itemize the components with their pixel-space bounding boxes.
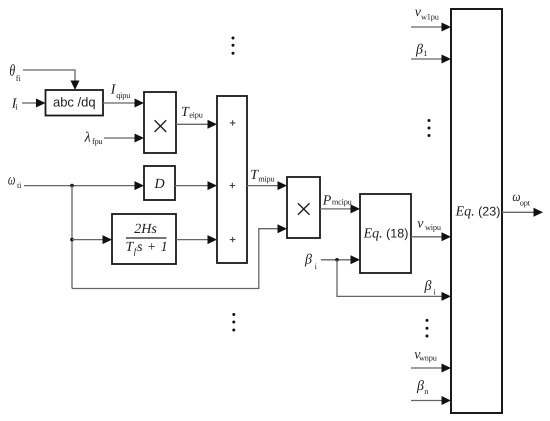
wire Eq18 to Eq23 xyxy=(411,236,443,238)
wire multiplier2 to Eq18 xyxy=(320,208,352,210)
arrow into Eq23 v_wipu xyxy=(442,232,452,241)
svg-text:D: D xyxy=(153,177,164,192)
svg-text:Tfs + 1: Tfs + 1 xyxy=(126,240,169,256)
ellipsis above summer xyxy=(232,37,235,55)
svg-text:Eq. (18): Eq. (18) xyxy=(363,227,409,242)
block Eq23 xyxy=(451,9,502,413)
block summer xyxy=(217,96,247,263)
arrow into multiplier2 input2 xyxy=(278,224,288,233)
arrow into summer input2 xyxy=(208,181,218,190)
arrow into abc/dq top xyxy=(71,81,80,91)
svg-text:λ: λ xyxy=(84,130,91,145)
svg-text:opt: opt xyxy=(520,198,531,207)
svg-text:fpu: fpu xyxy=(92,137,103,146)
ellipsis below summer xyxy=(232,313,235,332)
wire I_i to abc/dq xyxy=(22,102,37,104)
plus sign 2 xyxy=(230,183,236,188)
wire omega drop down xyxy=(71,186,73,289)
wire v_wnpu to Eq23 xyxy=(411,367,443,369)
wire theta_fi to abc/dq top xyxy=(23,70,75,81)
wire lambda_fpu to multiplier1 xyxy=(104,137,136,139)
arrow into Eq23 v_w1pu xyxy=(442,23,452,32)
svg-text:wipu: wipu xyxy=(425,223,441,232)
svg-text:wnpu: wnpu xyxy=(419,354,437,363)
wire omega to TF block xyxy=(72,239,104,241)
arrow into multiplier1 input2 xyxy=(135,134,145,143)
svg-text:w1pu: w1pu xyxy=(421,13,439,22)
block abc/dq xyxy=(46,90,104,116)
wire summer to multiplier2 xyxy=(247,185,279,187)
svg-text:β: β xyxy=(304,253,312,268)
svg-text:β: β xyxy=(415,43,423,58)
arrow into summer input1 xyxy=(208,120,218,129)
arrow into summer input3 xyxy=(208,235,218,244)
arrow into Eq18 input1 xyxy=(351,204,361,213)
times sign multiplier2 xyxy=(298,203,310,215)
wire omega_ti to D block xyxy=(24,185,136,187)
arrow into TF block xyxy=(103,235,113,244)
arrow omega_opt output xyxy=(534,208,544,217)
svg-text:eipu: eipu xyxy=(189,110,203,119)
svg-text:Eq. (23): Eq. (23) xyxy=(455,205,501,220)
wire TF to summer xyxy=(176,239,209,241)
junction omega at TF row xyxy=(70,238,74,242)
wire beta_i branch to Eq23 xyxy=(337,260,443,297)
junction beta_i xyxy=(335,258,339,262)
ellipsis right upper xyxy=(428,119,431,137)
ellipsis right lower xyxy=(426,319,429,338)
wire D to summer xyxy=(175,185,209,187)
svg-text:2Hs: 2Hs xyxy=(134,222,157,237)
svg-text:P: P xyxy=(322,194,332,209)
block D xyxy=(144,166,175,200)
svg-text:1: 1 xyxy=(423,49,427,58)
times sign multiplier1 xyxy=(155,120,167,132)
svg-text:β: β xyxy=(424,279,432,294)
svg-text:mipu: mipu xyxy=(258,175,274,184)
junction omega at D row xyxy=(70,184,74,188)
block multiplier1 xyxy=(144,92,176,153)
arrow into multiplier1 input1 xyxy=(135,99,145,108)
arrow into D block xyxy=(135,181,145,190)
block multiplier2 xyxy=(287,177,320,238)
wire v_w1pu to Eq23 xyxy=(411,26,443,28)
arrow into Eq23 beta_n xyxy=(442,396,452,405)
arrow into Eq23 beta_i xyxy=(442,292,452,301)
arrow into Eq23 v_wnpu xyxy=(442,364,452,373)
svg-text:v: v xyxy=(417,217,424,232)
wire beta_i to Eq18 xyxy=(321,259,352,261)
wire Eq23 output omega_opt xyxy=(502,211,534,213)
wire multiplier1 to summer xyxy=(176,123,209,125)
wire beta_1 to Eq23 xyxy=(411,58,443,60)
svg-text:ω: ω xyxy=(8,172,16,189)
arrow into multiplier2 input1 xyxy=(278,181,288,190)
block Eq18 xyxy=(360,194,411,273)
svg-text:qipu: qipu xyxy=(116,91,130,100)
label theta_fi xyxy=(9,63,15,80)
fraction bar xyxy=(126,237,167,239)
arrow into abc/dq left xyxy=(36,99,46,108)
label omega_opt xyxy=(512,190,520,205)
wire abc/dq to multiplier1 xyxy=(103,102,136,104)
wire beta_n to Eq23 xyxy=(411,400,443,402)
plus sign 1 xyxy=(230,120,236,125)
svg-text:mcipu: mcipu xyxy=(332,198,352,207)
svg-text:abc /dq: abc /dq xyxy=(53,95,96,110)
plus sign 3 xyxy=(230,237,236,242)
arrow into Eq18 input2 xyxy=(351,255,361,264)
svg-text:β: β xyxy=(416,379,424,394)
label omega_ti xyxy=(8,172,16,189)
block transfer function 2Hs/(Tfs+1) xyxy=(112,214,176,264)
wire omega feedback to multiplier2 xyxy=(72,229,279,289)
svg-text:θ: θ xyxy=(9,63,15,80)
arrow into Eq23 beta_1 xyxy=(442,55,452,64)
